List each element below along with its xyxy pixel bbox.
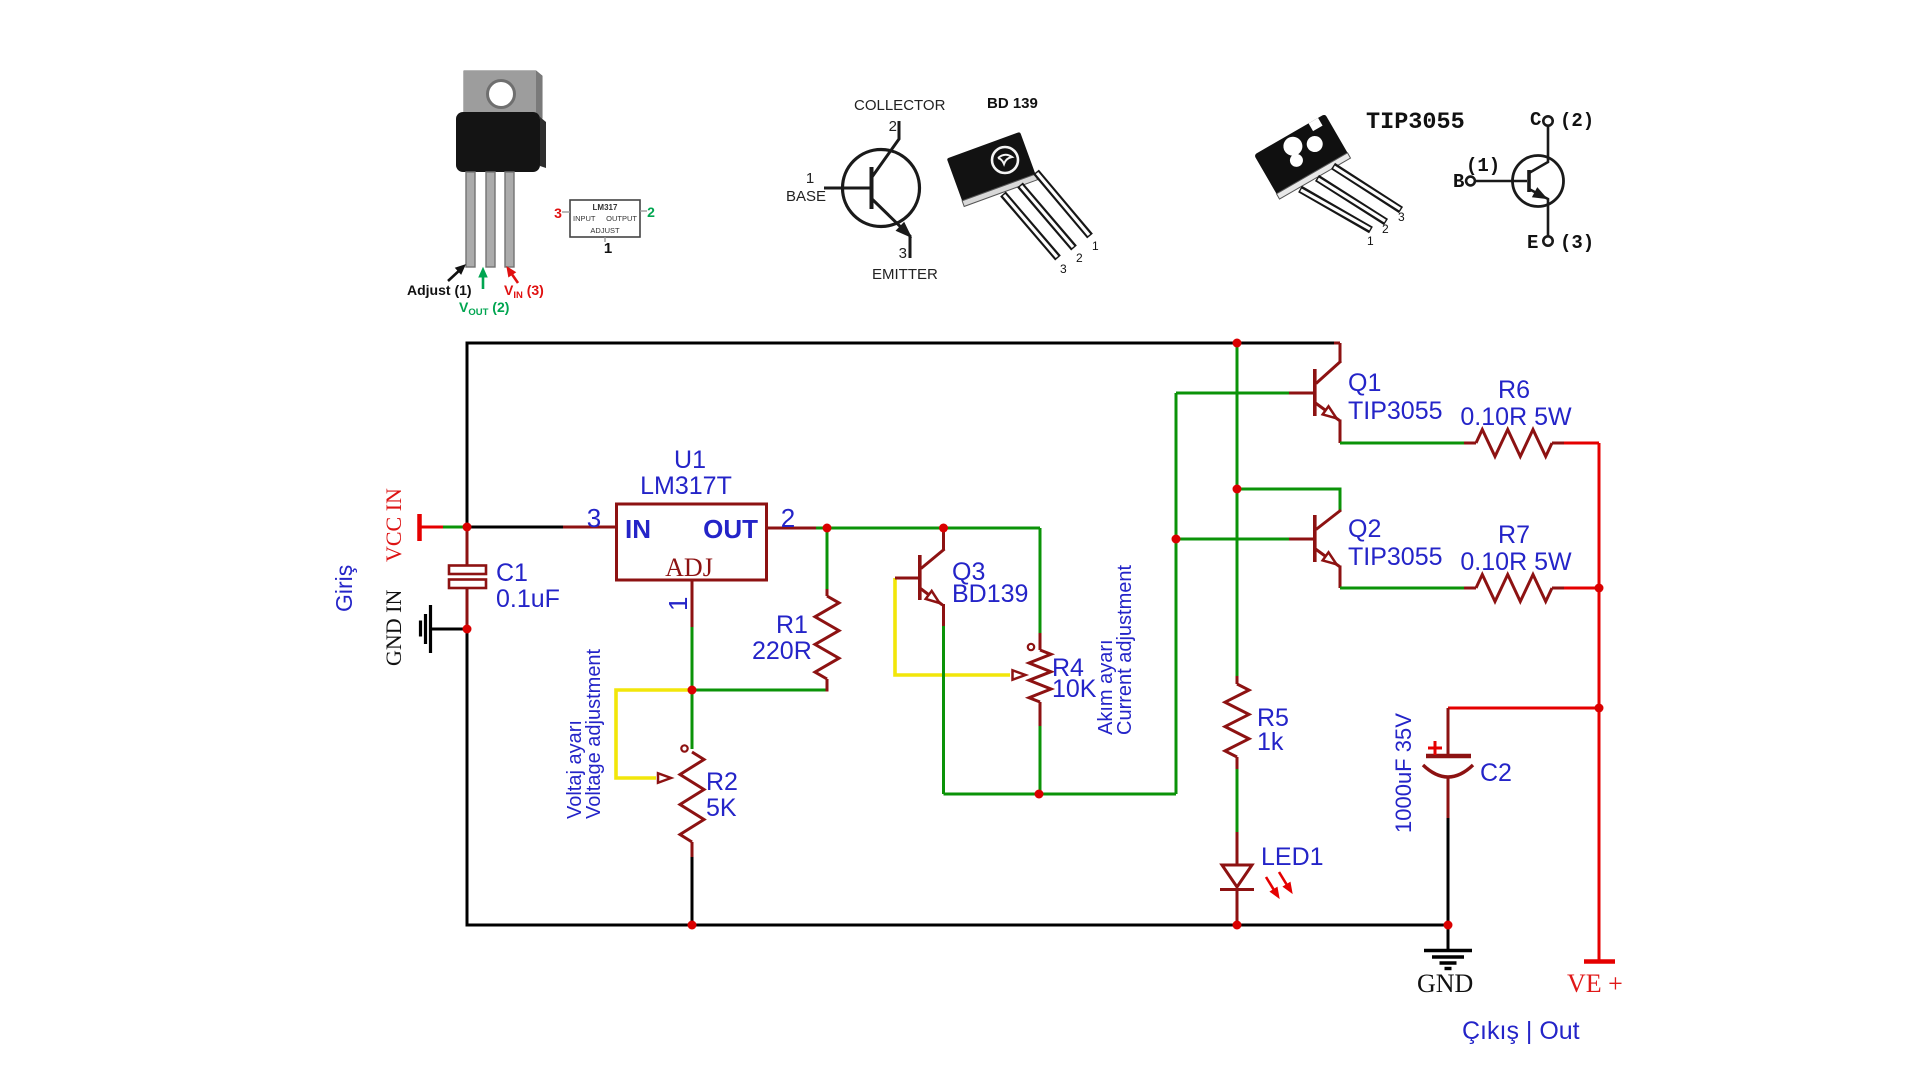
svg-text:R7: R7 (1498, 521, 1530, 549)
svg-text:U1: U1 (674, 446, 706, 474)
svg-text:3: 3 (899, 245, 907, 262)
svg-text:0.10R 5W: 0.10R 5W (1460, 403, 1572, 431)
svg-text:(3): (3) (1560, 232, 1594, 254)
svg-text:LM317T: LM317T (640, 472, 732, 500)
svg-text:VE +: VE + (1567, 969, 1623, 998)
svg-text:TIP3055: TIP3055 (1348, 397, 1443, 425)
svg-text:ADJ: ADJ (665, 553, 713, 582)
svg-text:BD139: BD139 (952, 580, 1028, 608)
svg-text:3: 3 (554, 205, 562, 221)
svg-text:R6: R6 (1498, 376, 1530, 404)
svg-text:LM317: LM317 (593, 203, 618, 212)
svg-text:Voltage adjustment: Voltage adjustment (583, 648, 605, 819)
svg-text:VOUT (2): VOUT (2) (459, 299, 509, 318)
svg-text:1k: 1k (1257, 728, 1284, 756)
svg-text:GND IN: GND IN (381, 590, 406, 666)
svg-text:2: 2 (647, 204, 655, 220)
svg-text:1: 1 (604, 240, 612, 257)
svg-text:0.1uF: 0.1uF (496, 585, 560, 613)
svg-text:TIP3055: TIP3055 (1366, 109, 1465, 136)
svg-text:Q1: Q1 (1348, 369, 1381, 397)
svg-text:1000uF 35V: 1000uF 35V (1391, 713, 1416, 833)
svg-text:VCC IN: VCC IN (381, 488, 406, 562)
svg-text:LED1: LED1 (1261, 843, 1324, 871)
svg-text:INPUT: INPUT (573, 214, 596, 223)
svg-text:Q2: Q2 (1348, 515, 1381, 543)
svg-text:COLLECTOR: COLLECTOR (854, 97, 946, 114)
svg-text:GND: GND (1417, 969, 1473, 998)
svg-text:Giriş: Giriş (331, 565, 357, 612)
svg-text:2: 2 (1382, 222, 1389, 236)
svg-text:(1): (1) (1466, 155, 1500, 177)
svg-text:IN: IN (625, 514, 651, 544)
svg-text:VIN (3): VIN (3) (504, 282, 544, 301)
svg-text:3: 3 (587, 503, 601, 533)
svg-text:10K: 10K (1052, 675, 1097, 703)
svg-text:C1: C1 (496, 559, 528, 587)
svg-text:R1: R1 (776, 611, 808, 639)
svg-text:2: 2 (889, 118, 897, 135)
svg-text:TIP3055: TIP3055 (1348, 543, 1443, 571)
svg-text:2: 2 (781, 503, 795, 533)
svg-text:5K: 5K (706, 794, 737, 822)
svg-text:Adjust (1): Adjust (1) (407, 282, 472, 298)
svg-text:0.10R 5W: 0.10R 5W (1460, 548, 1572, 576)
svg-text:OUT: OUT (703, 514, 758, 544)
svg-text:1: 1 (806, 170, 814, 187)
svg-text:R2: R2 (706, 768, 738, 796)
svg-text:220R: 220R (752, 637, 812, 665)
svg-text:Çıkış | Out: Çıkış | Out (1462, 1017, 1580, 1045)
svg-text:3: 3 (1398, 210, 1405, 224)
svg-text:1: 1 (1367, 234, 1374, 248)
svg-text:E: E (1527, 232, 1538, 254)
svg-text:B: B (1453, 171, 1464, 193)
svg-text:OUTPUT: OUTPUT (606, 214, 637, 223)
svg-text:C: C (1530, 109, 1541, 131)
svg-text:3: 3 (1060, 262, 1067, 276)
svg-text:2: 2 (1076, 251, 1083, 265)
svg-text:1: 1 (663, 597, 693, 611)
svg-text:Current adjustment: Current adjustment (1114, 564, 1136, 735)
svg-text:C2: C2 (1480, 759, 1512, 787)
svg-text:ADJUST: ADJUST (590, 226, 620, 235)
svg-text:BASE: BASE (786, 188, 826, 205)
svg-text:(2): (2) (1560, 110, 1594, 132)
svg-text:1: 1 (1092, 239, 1099, 253)
svg-text:EMITTER: EMITTER (872, 266, 938, 283)
svg-text:BD 139: BD 139 (987, 95, 1038, 112)
